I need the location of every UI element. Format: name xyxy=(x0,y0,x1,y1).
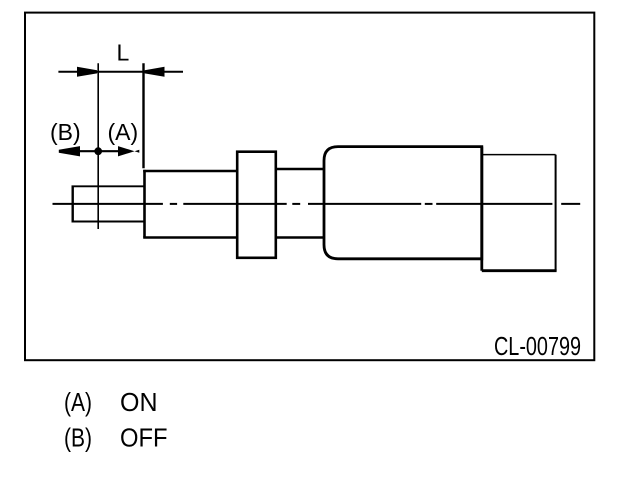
svg-text:(B): (B) xyxy=(64,423,92,453)
svg-text:(B): (B) xyxy=(50,119,81,145)
svg-text:OFF: OFF xyxy=(120,423,168,453)
svg-text:CL-00799: CL-00799 xyxy=(494,331,581,361)
svg-text:ON: ON xyxy=(120,387,158,417)
svg-text:L: L xyxy=(117,39,130,65)
svg-text:(A): (A) xyxy=(108,119,139,145)
svg-text:(A): (A) xyxy=(64,387,92,417)
